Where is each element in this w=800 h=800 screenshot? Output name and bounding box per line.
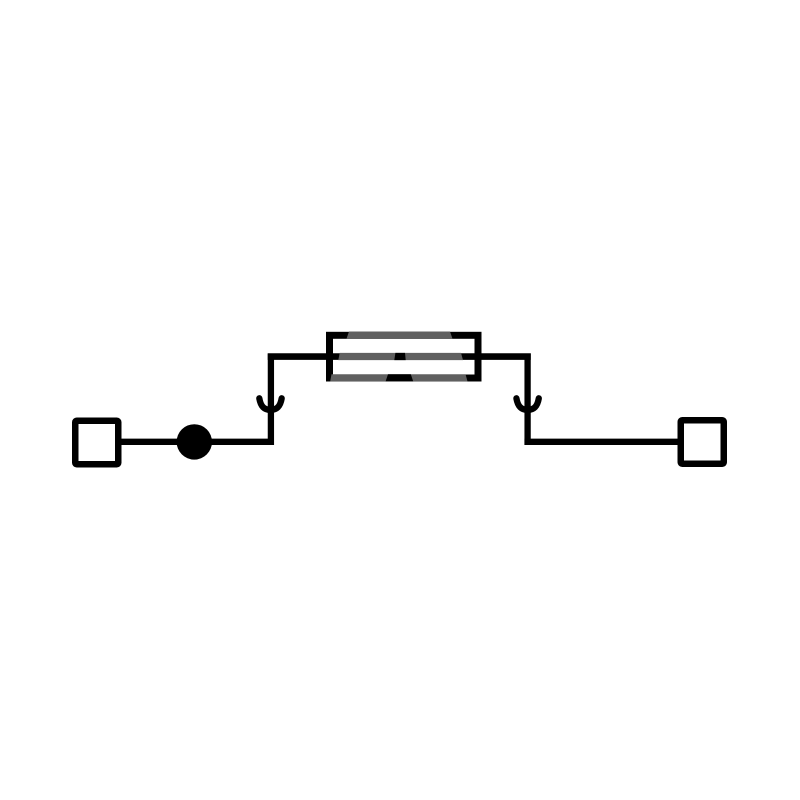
wire: top horizontal through fuse [268,353,531,360]
fuse triangle marker piece on bottom band [386,374,414,381]
wire: left riser vertical [268,353,274,445]
fuse clip contact right (cup symbol) [516,398,538,410]
fuse triangle marker piece on middle band [394,353,405,360]
fuse cartridge gray band top [347,332,453,339]
wire: bottom-left horizontal from terminal 1 to left riser [121,439,274,445]
terminal clamping point square right [681,420,724,464]
wire: right riser vertical [524,353,530,445]
fuse body F1 rectangle [330,335,479,378]
wire: bottom-right horizontal from right riser to terminal 2 [524,439,678,445]
terminal clamping point square left [75,421,118,465]
fuse cartridge gray band bottom [330,374,467,381]
fuse cartridge gray band middle [338,353,463,360]
junction dot node [177,424,212,459]
fuse clip contact left (cup symbol) [259,398,281,410]
